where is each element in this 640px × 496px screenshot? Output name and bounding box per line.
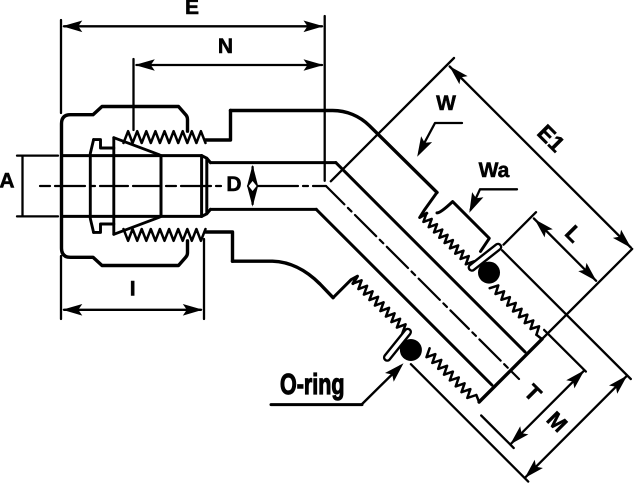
front ferrule cone top: [114, 138, 160, 155]
body relief groove bottom: [206, 232, 233, 261]
O-ring retaining washer upper: [472, 247, 498, 268]
dimension E1 line: [450, 67, 631, 248]
dimension T extension line lower: [481, 416, 514, 449]
dimension M line: [525, 376, 626, 477]
O-ring upper (filled): [478, 262, 500, 284]
back ferrule top outline: [94, 140, 114, 148]
upper thread undercut notch: [420, 192, 437, 217]
dimension N extension line left: [132, 59, 134, 130]
bore D line top: [211, 161, 336, 164]
back ferrule bottom outline: [94, 224, 114, 232]
port end face: [479, 339, 542, 402]
dimension I line: [64, 309, 201, 311]
dimension L line: [534, 219, 596, 281]
male thread zigzag upper end section: [490, 285, 539, 334]
body hex bottom and lower flat: [233, 261, 334, 298]
nut internal thread zigzag top: [124, 131, 206, 241]
dimension E line: [64, 25, 322, 27]
leader W: [420, 123, 463, 152]
front ferrule back face: [112, 138, 115, 235]
dimension N line: [137, 64, 323, 66]
dimension T line: [511, 371, 583, 443]
extension line from port face (E1/L far): [543, 249, 632, 338]
body relief groove top: [206, 111, 231, 141]
angled bore wall upper: [336, 163, 525, 352]
svg-text:Wa: Wa: [479, 159, 510, 182]
O-ring lower (filled): [400, 339, 422, 361]
angled bore wall lower: [316, 209, 492, 385]
tube end chamfer: [202, 156, 211, 217]
dimension E/N extension line right: [324, 16, 326, 181]
dimension I extension line left: [60, 256, 62, 319]
dimension E1 extension line near: [331, 58, 454, 181]
dimension T extension line upper: [544, 330, 586, 372]
leader Wa: [471, 189, 517, 209]
dimension D arrow shaft: [251, 167, 253, 204]
body seat line: [160, 156, 163, 217]
tube end face: [200, 156, 203, 217]
centerline 45-degree axis: [326, 186, 519, 379]
lower thread undercut notch: [333, 276, 357, 298]
nut outer profile: [62, 107, 188, 266]
bore D line bottom: [211, 208, 317, 211]
svg-text:D: D: [226, 173, 241, 196]
dimension L extension line near: [504, 212, 537, 245]
svg-text:E: E: [185, 0, 199, 19]
O-ring retaining washer lower: [387, 332, 408, 358]
tube OD line top: [62, 154, 202, 157]
leader O-ring: [271, 403, 362, 406]
nut internal thread zigzag bottom: [124, 229, 206, 241]
svg-text:W: W: [436, 92, 456, 115]
locknut Wa outline: [437, 202, 489, 252]
dimension M extension line lower: [411, 364, 528, 481]
male thread zigzag upper front section: [423, 214, 474, 265]
dimension A extension+dim lines: [17, 156, 58, 217]
tube OD line bottom: [62, 215, 202, 218]
svg-text:O-ring: O-ring: [280, 369, 345, 401]
male thread zigzag lower end section: [427, 348, 477, 398]
male thread zigzag lower front section: [353, 280, 406, 333]
thread end chamfer upper: [536, 335, 542, 339]
front ferrule cone bottom: [114, 217, 160, 234]
dimension M extension line upper: [502, 250, 631, 379]
centerline horizontal axis: [40, 186, 519, 379]
svg-text:A: A: [0, 170, 15, 193]
body hex top and W flat: [231, 110, 438, 192]
dimension I extension line right: [203, 239, 205, 319]
dimension E extension line left: [60, 20, 62, 113]
thread end chamfer lower: [476, 395, 479, 402]
svg-text:N: N: [218, 35, 233, 58]
svg-text:I: I: [130, 278, 136, 301]
back ferrule left edge: [90, 140, 93, 233]
